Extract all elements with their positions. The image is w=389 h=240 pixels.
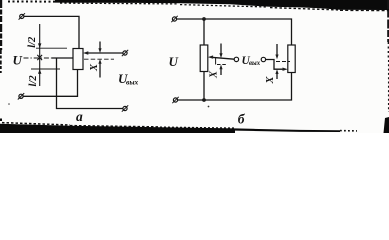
svg-text:X: X xyxy=(209,70,220,79)
wire bottom rail circuit a xyxy=(23,70,77,97)
terminal bottom-left circuit b xyxy=(172,97,178,103)
speck left margin (scan dust) xyxy=(8,103,10,105)
wire top rail circuit a xyxy=(24,16,79,48)
dimension arrowhead lower circuit a xyxy=(38,69,41,74)
label Uvyh circuit a xyxy=(118,71,139,87)
terminal top-left circuit a xyxy=(19,13,25,19)
dimension arrowhead upper circuit a xyxy=(38,43,41,48)
label Uvyh circuit b xyxy=(242,55,261,67)
potentiometer right (circuit b) xyxy=(288,45,295,73)
terminal wiper output circuit a xyxy=(122,50,128,56)
dimension line l/2 shaft circuit a xyxy=(39,24,41,86)
svg-text:а: а xyxy=(76,109,83,124)
svg-text:U: U xyxy=(169,54,179,69)
svg-text:б: б xyxy=(238,111,246,126)
dimension arrow X lower left pot circuit b xyxy=(219,65,222,76)
reference dash right pot circuit b xyxy=(276,61,290,63)
reference dash left pot circuit b xyxy=(217,64,227,66)
terminal bottom-left circuit a xyxy=(18,93,24,99)
wire top rail circuit b xyxy=(177,19,292,45)
reference tick left pot circuit b xyxy=(215,58,217,65)
wire mid-tap circuit a xyxy=(52,57,73,59)
wire left pot bottom circuit b xyxy=(203,72,205,101)
junction dot top circuit b xyxy=(202,17,206,21)
wiper arrow right pot circuit b xyxy=(283,68,288,71)
scan artifact right edge xyxy=(387,0,389,112)
svg-text:l/2: l/2 xyxy=(28,75,39,87)
scan artifact left edge xyxy=(0,0,2,73)
potentiometer left (circuit b) xyxy=(200,45,208,72)
dimension arrow X lower right pot circuit b xyxy=(275,69,278,79)
svg-text:l/2: l/2 xyxy=(27,36,38,48)
wiper arrow circuit a xyxy=(83,51,123,54)
terminal mid-tap output circuit a xyxy=(122,105,128,111)
centerline dash-dot right circuit a xyxy=(84,58,114,60)
dimension arrow X upper left pot circuit b xyxy=(219,44,222,59)
svg-text:вых: вых xyxy=(249,60,261,67)
dimension arrow X upper right pot circuit b xyxy=(275,44,278,59)
junction dot bottom circuit b xyxy=(202,98,206,102)
svg-text:вых: вых xyxy=(126,78,139,87)
wire mid-tap down circuit a xyxy=(57,58,123,109)
centerline dash-dot left circuit a xyxy=(24,57,53,59)
output terminal right circuit b xyxy=(261,57,265,61)
wire bottom rail circuit b xyxy=(178,73,292,101)
dimension arrow X upper circuit a xyxy=(98,42,101,54)
extension line upper circuit a xyxy=(36,47,67,49)
scan artifact bottom band xyxy=(0,117,389,133)
wiper arrow left pot circuit b xyxy=(208,55,234,59)
potentiometer R (circuit a) xyxy=(73,49,83,70)
output terminal left circuit b xyxy=(234,57,238,61)
svg-text:X: X xyxy=(265,76,276,85)
terminal top-left circuit b xyxy=(171,16,177,22)
dimension arrowheads mid cross circuit a xyxy=(37,55,42,60)
wire to right wiper circuit b xyxy=(266,60,284,70)
scan artifact top band xyxy=(8,0,389,11)
speck below junction (scan dust) xyxy=(208,106,210,108)
wire to left pot top circuit b xyxy=(203,19,205,45)
dimension arrow X lower circuit a xyxy=(98,59,101,78)
extension line lower circuit a xyxy=(31,68,60,70)
svg-text:U: U xyxy=(13,53,23,68)
svg-text:X: X xyxy=(89,63,100,72)
